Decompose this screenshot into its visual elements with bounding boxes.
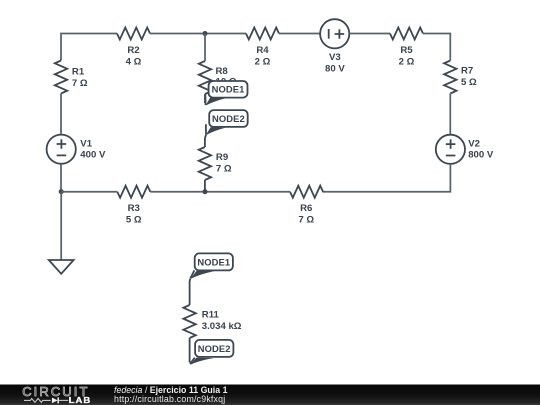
svg-text:V2: V2 xyxy=(468,138,480,149)
svg-text:V3: V3 xyxy=(329,52,341,63)
svg-text:NODE2: NODE2 xyxy=(212,113,245,124)
resistor R11 xyxy=(183,305,195,338)
svg-text:R1: R1 xyxy=(72,67,85,78)
svg-text:R11: R11 xyxy=(202,310,220,321)
ground xyxy=(49,260,74,274)
svg-text:R9: R9 xyxy=(216,152,228,163)
svg-text:7 Ω: 7 Ω xyxy=(298,214,314,225)
svg-text:R5: R5 xyxy=(400,45,413,56)
svg-text:400 V: 400 V xyxy=(80,150,106,161)
svg-text:NODE2: NODE2 xyxy=(198,343,231,354)
flag NODE1 (at R8) xyxy=(205,81,247,106)
svg-text:2 Ω: 2 Ω xyxy=(255,56,271,67)
wire R4 to V3 xyxy=(279,33,320,35)
flag NODE1 (standalone, to R11) xyxy=(190,253,233,279)
svg-text:R6: R6 xyxy=(300,203,312,214)
wire R3 to left node xyxy=(61,191,117,193)
wire R2 to R4 (through top node) xyxy=(150,33,246,35)
resistor R1 xyxy=(55,61,67,94)
svg-text:http://circuitlab.com/c9kfxqj: http://circuitlab.com/c9kfxqj xyxy=(114,394,225,404)
svg-text:R3: R3 xyxy=(128,203,140,214)
resistor R7 xyxy=(444,61,456,94)
svg-text:2 Ω: 2 Ω xyxy=(399,56,415,67)
wire NODE1 to R11 xyxy=(189,279,192,306)
svg-text:R2: R2 xyxy=(127,45,139,56)
svg-text:NODE1: NODE1 xyxy=(197,256,230,267)
wire R5 to top-right corner xyxy=(423,34,450,61)
svg-text:7 Ω: 7 Ω xyxy=(216,163,232,174)
voltage source V3 xyxy=(320,19,349,48)
svg-text:V1: V1 xyxy=(80,138,92,149)
voltage source V1 xyxy=(47,135,76,164)
wire V2 to bottom-right corner xyxy=(322,164,450,192)
node junction bottom middle xyxy=(203,189,208,194)
svg-text:7 Ω: 7 Ω xyxy=(72,78,88,89)
flag NODE2 (standalone, below R11) xyxy=(190,340,234,365)
resistor R2 xyxy=(117,28,150,40)
svg-text:NODE1: NODE1 xyxy=(212,84,245,95)
wire R11 to NODE2 xyxy=(189,338,191,363)
CircuitLab logo: resistor zigzag + diode xyxy=(24,399,51,403)
resistor R5 xyxy=(390,28,423,40)
footer bar xyxy=(0,385,540,405)
node junction top (R8 tap) xyxy=(203,31,208,36)
resistor R9 xyxy=(199,147,211,180)
wire R8 bottom lead xyxy=(204,94,206,103)
voltage source V2 xyxy=(436,135,465,164)
svg-text:5 Ω: 5 Ω xyxy=(126,214,142,225)
svg-text:4 Ω: 4 Ω xyxy=(126,56,142,67)
resistor R6 xyxy=(290,186,323,198)
wire NODE2 to R9 xyxy=(205,135,206,147)
svg-text:R7: R7 xyxy=(461,66,473,77)
wire top-left corner to R2 xyxy=(61,34,117,61)
wire V3 to R5 xyxy=(349,33,390,35)
svg-text:80 V: 80 V xyxy=(325,63,345,74)
svg-text:800 V: 800 V xyxy=(468,150,494,161)
wire top node to R8 xyxy=(204,34,206,62)
svg-text:R4: R4 xyxy=(256,45,269,56)
resistor R8 xyxy=(199,61,211,94)
wire R6 to mid node xyxy=(150,191,290,193)
wire V1 to bottom node xyxy=(60,164,62,192)
resistor R3 xyxy=(117,186,150,198)
wire node to ground xyxy=(60,192,62,260)
flag NODE2 (at R9) xyxy=(206,110,248,135)
wire R1 to V1 xyxy=(60,94,62,135)
resistor R4 xyxy=(246,28,279,40)
svg-text:5 Ω: 5 Ω xyxy=(461,77,477,88)
wire R7 to V2 xyxy=(449,94,451,135)
svg-text:3.034 kΩ: 3.034 kΩ xyxy=(202,321,242,332)
wire R9 to bottom node xyxy=(204,180,206,192)
svg-text:LAB: LAB xyxy=(69,396,92,405)
node junction below V1 xyxy=(59,189,64,194)
